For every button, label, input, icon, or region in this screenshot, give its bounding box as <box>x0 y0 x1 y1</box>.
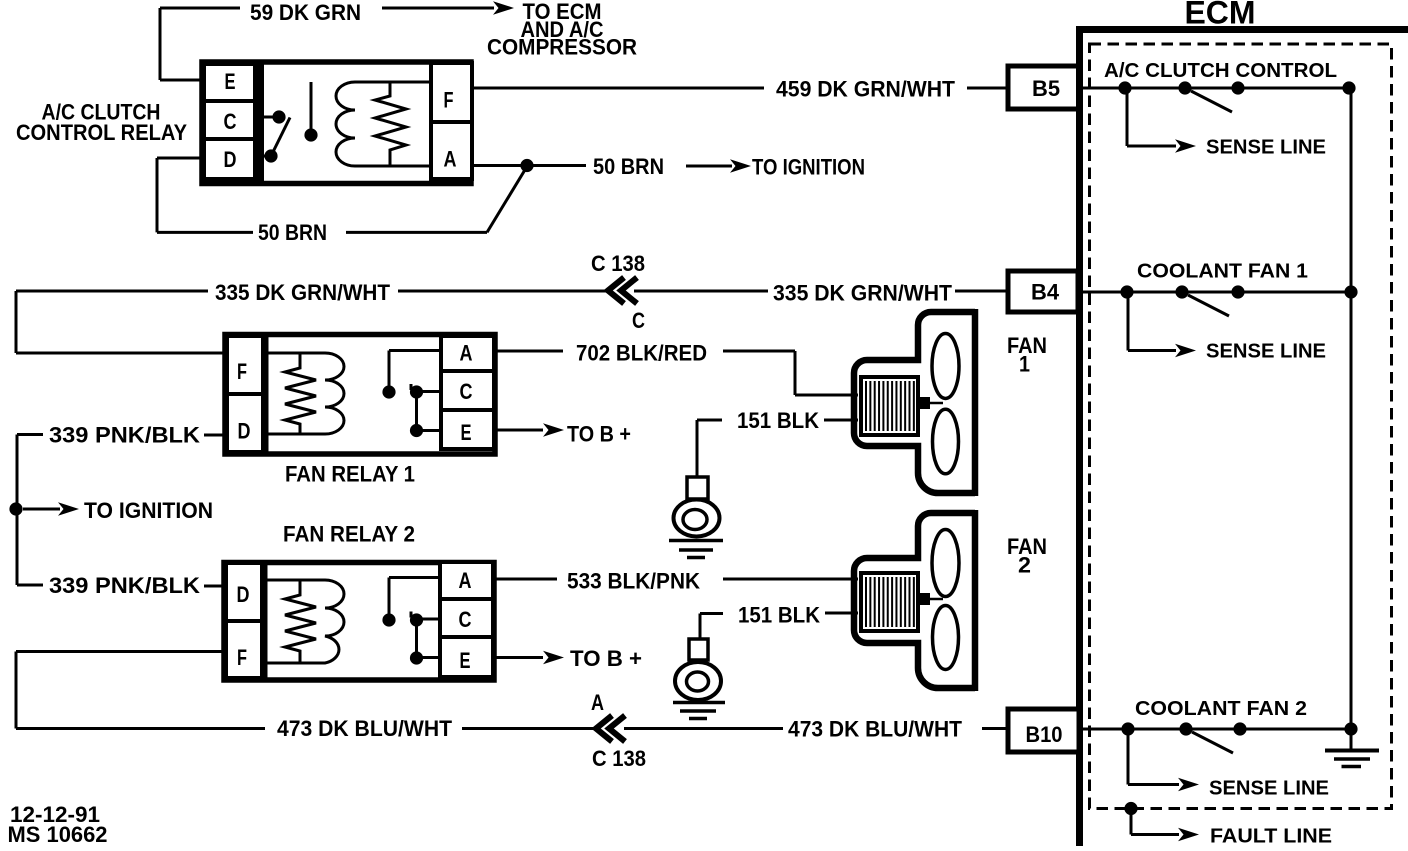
relay K3: FAN RELAY 2 body <box>224 563 494 681</box>
connector C138 pin A (chevron) <box>596 716 625 742</box>
svg-text:COOLANT FAN 1: COOLANT FAN 1 <box>1137 261 1308 283</box>
pin D <box>204 139 255 179</box>
switch armature K1 <box>304 82 317 142</box>
label: 59 DK GRN <box>250 0 361 25</box>
label: FAN 2 <box>1007 534 1047 577</box>
svg-text:50 BRN: 50 BRN <box>593 154 664 179</box>
pin C <box>204 101 255 139</box>
switch blade K1 <box>271 118 290 157</box>
label: A/C CLUTCH CONTROL <box>1104 60 1337 82</box>
label: FAN RELAY 2 <box>283 522 415 547</box>
switch armature K2 from pin A <box>382 351 441 399</box>
svg-text:50 BRN: 50 BRN <box>258 220 327 245</box>
wire: 702 BLK/RED from K2 pin A to fan 1 <box>494 351 858 395</box>
svg-text:C: C <box>632 308 645 333</box>
pin E <box>204 64 255 101</box>
label: TO B + (upper) <box>567 422 631 447</box>
arrow TO B+ from K2 pin E <box>494 423 564 437</box>
fan motor M1 armature (hatched box) <box>861 377 918 435</box>
sense line arrow row3 <box>1128 729 1199 791</box>
ECM internal ground <box>1325 729 1379 767</box>
svg-text:2: 2 <box>1018 552 1031 577</box>
fan M1 blade lower <box>933 409 959 474</box>
connector pin B10 <box>1008 709 1079 752</box>
svg-text:FAN RELAY 1: FAN RELAY 1 <box>285 462 415 487</box>
svg-text:C 138: C 138 <box>591 251 645 276</box>
wire: 473 DK BLU/WHT right of C138 <box>624 727 1009 730</box>
node: row2 junction dots <box>1120 285 1357 298</box>
label: 459 DK GRN/WHT <box>776 77 956 102</box>
label: 335 DK GRN/WHT (left) <box>215 280 391 305</box>
fault line arrow <box>1131 809 1199 842</box>
node: row1 junction dots <box>1118 81 1355 94</box>
junction: 50 BRN node <box>520 159 533 172</box>
svg-text:B4: B4 <box>1031 280 1060 305</box>
K2 pin E <box>441 410 494 449</box>
svg-text:459 DK GRN/WHT: 459 DK GRN/WHT <box>776 77 956 102</box>
label: ECM <box>1185 0 1256 31</box>
svg-text:A: A <box>591 690 604 715</box>
sense line arrow row1 <box>1127 88 1196 153</box>
fan M2 blade lower <box>933 606 959 670</box>
switch contact K2 to pin C <box>410 384 441 399</box>
wire: ECM internal bus (row1 to ground) <box>1350 88 1353 729</box>
ECM dashed boundary <box>1090 44 1392 809</box>
wire: 151 BLK fan 2 to ground G2 <box>700 613 858 640</box>
svg-text:F: F <box>237 645 247 670</box>
switch blade row1 <box>1191 91 1232 112</box>
svg-text:E: E <box>225 69 236 94</box>
fan motor M2 armature (hatched box) <box>861 573 918 631</box>
svg-text:533 BLK/PNK: 533 BLK/PNK <box>567 569 700 594</box>
svg-text:A/C CLUTCH CONTROL: A/C CLUTCH CONTROL <box>1104 60 1337 82</box>
svg-text:335 DK GRN/WHT: 335 DK GRN/WHT <box>215 280 391 305</box>
svg-text:B5: B5 <box>1032 76 1060 101</box>
svg-text:1: 1 <box>1019 351 1030 376</box>
svg-text:SENSE LINE: SENSE LINE <box>1206 137 1326 159</box>
K2 pin C <box>441 371 494 410</box>
fan M2 blade upper <box>932 530 959 597</box>
svg-text:339 PNK/BLK: 339 PNK/BLK <box>49 573 200 598</box>
label: 151 BLK (lower) <box>738 603 820 628</box>
wire+arrow to ECM and A/C compressor <box>382 1 514 15</box>
switch contact K3 to pin C <box>410 612 440 627</box>
switch blade K2 <box>415 392 418 431</box>
svg-text:MS 10662: MS 10662 <box>8 822 108 846</box>
K2 pin F <box>227 336 263 394</box>
junction: fault line tap on ECM boundary <box>1124 802 1137 815</box>
label: pin A of C138 <box>591 690 604 715</box>
K3 pin D <box>226 563 262 621</box>
svg-text:59 DK GRN: 59 DK GRN <box>250 0 361 25</box>
K3 pin E <box>440 637 493 677</box>
label: 339 PNK/BLK (upper) <box>49 423 200 448</box>
label: SENSE LINE row2 <box>1206 341 1326 363</box>
arrow TO B+ from K3 pin E <box>493 651 564 665</box>
label: 533 BLK/PNK <box>567 569 700 594</box>
switch contact from pin D <box>258 149 278 162</box>
label: SENSE LINE row3 <box>1209 778 1329 800</box>
svg-text:D: D <box>224 147 237 172</box>
arrow to ignition (left) <box>58 502 79 516</box>
svg-text:A: A <box>459 568 472 593</box>
svg-text:FAN RELAY 2: FAN RELAY 2 <box>283 522 415 547</box>
label: FAN RELAY 1 <box>285 462 415 487</box>
connector pin B4 <box>1008 271 1078 312</box>
label: drawing number MS 10662 <box>8 822 108 847</box>
label: COOLANT FAN 1 <box>1137 261 1308 283</box>
wire: ignition feed rail <box>17 435 60 586</box>
label: 473 DK BLU/WHT (right) <box>788 717 963 742</box>
K2 pin D <box>227 394 263 452</box>
svg-text:E: E <box>461 420 472 445</box>
svg-text:473 DK BLU/WHT: 473 DK BLU/WHT <box>788 717 963 742</box>
label: 702 BLK/RED <box>576 341 707 366</box>
K2 pin A <box>441 336 494 371</box>
wire: 473 DK BLU/WHT from K3 pin F <box>16 652 265 729</box>
label: FAULT LINE <box>1210 826 1332 848</box>
wire: 339 PNK/BLK to K3 pin D <box>17 585 222 586</box>
wire: 335 DK GRN/WHT right of C138 <box>634 290 1009 293</box>
svg-text:FAULT LINE: FAULT LINE <box>1210 826 1332 847</box>
wire: coolant fan 2 line in ECM <box>1079 728 1351 731</box>
wire: 335 DK GRN/WHT left of C138 <box>16 291 606 353</box>
wire: 533 BLK/PNK from K3 pin A to fan 2 <box>493 578 858 581</box>
svg-text:SENSE LINE: SENSE LINE <box>1209 778 1329 800</box>
label: date 12-12-91 <box>10 802 100 827</box>
wire: 151 BLK fan 1 to ground G1 <box>697 420 858 478</box>
svg-text:C: C <box>459 607 472 632</box>
label: C 138 (lower) <box>592 746 646 771</box>
svg-text:339 PNK/BLK: 339 PNK/BLK <box>49 423 200 448</box>
wire: 459 DK GRN/WHT from pin F to B5 <box>472 87 1009 90</box>
label: A/C CLUTCH CONTROL RELAY <box>16 100 187 146</box>
svg-text:SENSE LINE: SENSE LINE <box>1206 341 1326 363</box>
svg-text:473 DK BLU/WHT: 473 DK BLU/WHT <box>277 716 453 741</box>
label: C 138 (upper) <box>591 251 645 276</box>
svg-text:E: E <box>460 648 471 673</box>
label: TO IGNITION (left) <box>84 498 213 523</box>
switch blade row2 <box>1188 295 1229 316</box>
label: 473 DK BLU/WHT (left) <box>277 716 453 741</box>
svg-text:C: C <box>224 109 237 134</box>
relay K2: FAN RELAY 1 body <box>225 335 495 455</box>
svg-text:TO B +: TO B + <box>567 422 631 447</box>
relay K1: A/C clutch control relay body <box>202 62 471 184</box>
K3 pin F <box>226 621 262 678</box>
svg-text:A: A <box>460 341 473 366</box>
label: TO B + (lower) <box>570 646 642 671</box>
relay K2 interior wall <box>259 335 269 454</box>
wire: 50 BRN lower right segment + diagonal to junction <box>346 167 527 233</box>
K3 pin C <box>440 599 493 637</box>
relay coil K3 (inductor) <box>264 580 344 663</box>
svg-text:D: D <box>237 582 250 607</box>
fan motor M1 shaft <box>918 397 943 409</box>
K3 pin A <box>440 562 493 599</box>
relay K1 interior wall <box>253 63 264 184</box>
fan motor M2 shroud <box>854 510 975 691</box>
connector pin B5 <box>1008 66 1079 109</box>
relay coil K1 (inductor) <box>336 82 430 166</box>
svg-text:A: A <box>444 147 457 172</box>
svg-text:COMPRESSOR: COMPRESSOR <box>487 35 637 60</box>
switch contact K2 to pin E <box>410 424 441 437</box>
svg-text:151 BLK: 151 BLK <box>737 408 819 433</box>
switch blade K3 <box>415 620 418 658</box>
svg-text:D: D <box>238 419 251 444</box>
svg-text:151 BLK: 151 BLK <box>738 603 820 628</box>
fan M1 blade upper <box>932 334 959 399</box>
switch blade row3 <box>1192 732 1233 753</box>
wire: 339 PNK/BLK to K2 pin D <box>17 433 227 437</box>
label: 335 DK GRN/WHT (right) <box>773 281 953 306</box>
wire: coolant fan 1 line in ECM <box>1079 291 1351 294</box>
label: 339 PNK/BLK (lower) <box>49 573 200 598</box>
svg-text:CONTROL RELAY: CONTROL RELAY <box>16 120 187 145</box>
svg-text:C 138: C 138 <box>592 746 646 771</box>
relay coil K2 (resistor zigzag) <box>285 353 316 434</box>
svg-text:702 BLK/RED: 702 BLK/RED <box>576 341 707 366</box>
svg-text:TO IGNITION: TO IGNITION <box>752 154 865 179</box>
svg-text:F: F <box>444 88 454 113</box>
fan motor M1 shroud <box>854 309 975 496</box>
fan motor M2 shaft <box>918 593 943 605</box>
label: SENSE LINE row1 <box>1206 137 1326 159</box>
wire: A/C clutch control line in ECM <box>1079 87 1349 90</box>
relay coil K1 (resistor zigzag) <box>375 82 406 166</box>
relay K3 interior wall <box>258 563 268 680</box>
pin F <box>431 63 472 122</box>
label: pin C of C138 <box>632 308 645 333</box>
svg-text:335 DK GRN/WHT: 335 DK GRN/WHT <box>773 281 953 306</box>
label: TO ECM AND A/C COMPRESSOR <box>487 0 637 60</box>
switch contact K3 to pin E <box>410 651 440 664</box>
svg-text:F: F <box>237 359 247 384</box>
svg-text:TO IGNITION: TO IGNITION <box>84 498 213 523</box>
pin A <box>431 122 472 179</box>
ECM enclosure solid border <box>1076 26 1408 846</box>
relay coil K3 (resistor zigzag) <box>285 580 316 663</box>
wire: 473 DK BLU/WHT mid segment <box>462 727 596 730</box>
connector C138 pin C (chevron) <box>608 278 637 304</box>
svg-text:B10: B10 <box>1026 722 1063 747</box>
wire: 59 DK GRN net from relay pin E <box>160 8 240 80</box>
wire: 50 BRN from pin A <box>472 164 586 167</box>
label: COOLANT FAN 2 <box>1135 698 1307 720</box>
svg-text:TO B +: TO B + <box>570 646 642 671</box>
wire: 50 BRN from pin D <box>157 158 253 232</box>
ground G2 (ring terminal) <box>673 639 725 719</box>
relay coil K2 (inductor) <box>265 353 344 434</box>
node: row3 junction dots <box>1121 722 1357 735</box>
svg-text:ECM: ECM <box>1185 0 1256 31</box>
ground G1 (ring terminal) <box>669 477 723 558</box>
svg-text:COOLANT FAN 2: COOLANT FAN 2 <box>1135 698 1307 720</box>
label: 151 BLK (upper) <box>737 408 819 433</box>
label: TO IGNITION (top) <box>752 154 865 179</box>
switch armature K3 from pin A <box>382 578 440 627</box>
arrow to ignition (top) <box>686 159 751 173</box>
switch contact from pin C <box>258 110 286 123</box>
junction: ignition rail node <box>9 502 22 515</box>
svg-text:C: C <box>460 379 473 404</box>
label: 50 BRN (lower) <box>258 220 327 245</box>
label: FAN 1 <box>1007 333 1047 376</box>
label: 50 BRN <box>593 154 664 179</box>
sense line arrow row2 <box>1128 292 1196 357</box>
